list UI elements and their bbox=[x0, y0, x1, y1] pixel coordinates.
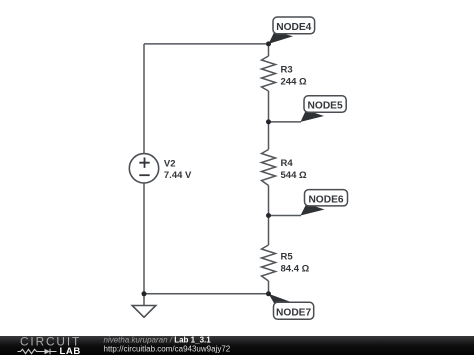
CircuitLab logo resistor-diode glyph bbox=[18, 349, 57, 355]
node NODE7 bbox=[269, 294, 314, 320]
svg-text:NODE7: NODE7 bbox=[276, 308, 311, 319]
junction node NODE4 dot bbox=[266, 41, 271, 46]
junction node NODE6 dot bbox=[266, 213, 271, 218]
node NODE5 bbox=[301, 96, 347, 122]
junction node NODE5 dot bbox=[266, 119, 271, 124]
svg-text:84.4 Ω: 84.4 Ω bbox=[281, 264, 310, 275]
wire right vertical segment NODE4 to R3 bbox=[268, 44, 270, 56]
svg-text:http://circuitlab.com/ca943uw9: http://circuitlab.com/ca943uw9ajy72 bbox=[104, 344, 231, 353]
svg-text:244 Ω: 244 Ω bbox=[281, 76, 307, 87]
footer bar bbox=[0, 336, 474, 355]
resistor R5 bbox=[262, 245, 310, 281]
svg-text:V2: V2 bbox=[164, 158, 176, 169]
wire right vertical segment R4 to NODE6 and on to R5 bbox=[268, 186, 270, 246]
svg-text:7.44 V: 7.44 V bbox=[164, 170, 192, 181]
node NODE4 bbox=[269, 17, 315, 44]
svg-text:LAB: LAB bbox=[60, 346, 81, 355]
ground bbox=[132, 294, 156, 318]
svg-text:R5: R5 bbox=[281, 252, 294, 263]
node NODE6 bbox=[301, 190, 348, 216]
svg-text:544 Ω: 544 Ω bbox=[281, 170, 307, 181]
wire top horizontal from V2 to NODE4 junction bbox=[144, 43, 269, 45]
svg-text:NODE4: NODE4 bbox=[276, 22, 311, 33]
svg-text:NODE6: NODE6 bbox=[308, 194, 343, 205]
wire left vertical upper (V2 top lead) bbox=[143, 44, 145, 154]
wire NODE5 stub bbox=[269, 121, 302, 123]
svg-text:nivetha.kuruparan / Lab 1_3.1: nivetha.kuruparan / Lab 1_3.1 bbox=[104, 336, 212, 345]
wire right vertical segment R3 to NODE5 and on to R4 bbox=[268, 91, 270, 150]
wire left vertical lower (V2 bottom lead) bbox=[143, 183, 145, 294]
voltage source V2 bbox=[129, 154, 192, 183]
junction ground dot bbox=[142, 291, 147, 296]
resistor R4 bbox=[262, 150, 307, 186]
svg-text:R4: R4 bbox=[281, 158, 294, 169]
resistor R3 bbox=[262, 56, 307, 91]
junction node NODE7 dot bbox=[266, 291, 271, 296]
svg-text:R3: R3 bbox=[281, 65, 293, 76]
wire bottom horizontal from ground junction to NODE7 junction bbox=[144, 293, 269, 295]
wire right vertical segment R5 to NODE7 junction bbox=[268, 281, 270, 294]
svg-text:NODE5: NODE5 bbox=[308, 100, 343, 111]
wire NODE6 stub bbox=[269, 215, 302, 217]
